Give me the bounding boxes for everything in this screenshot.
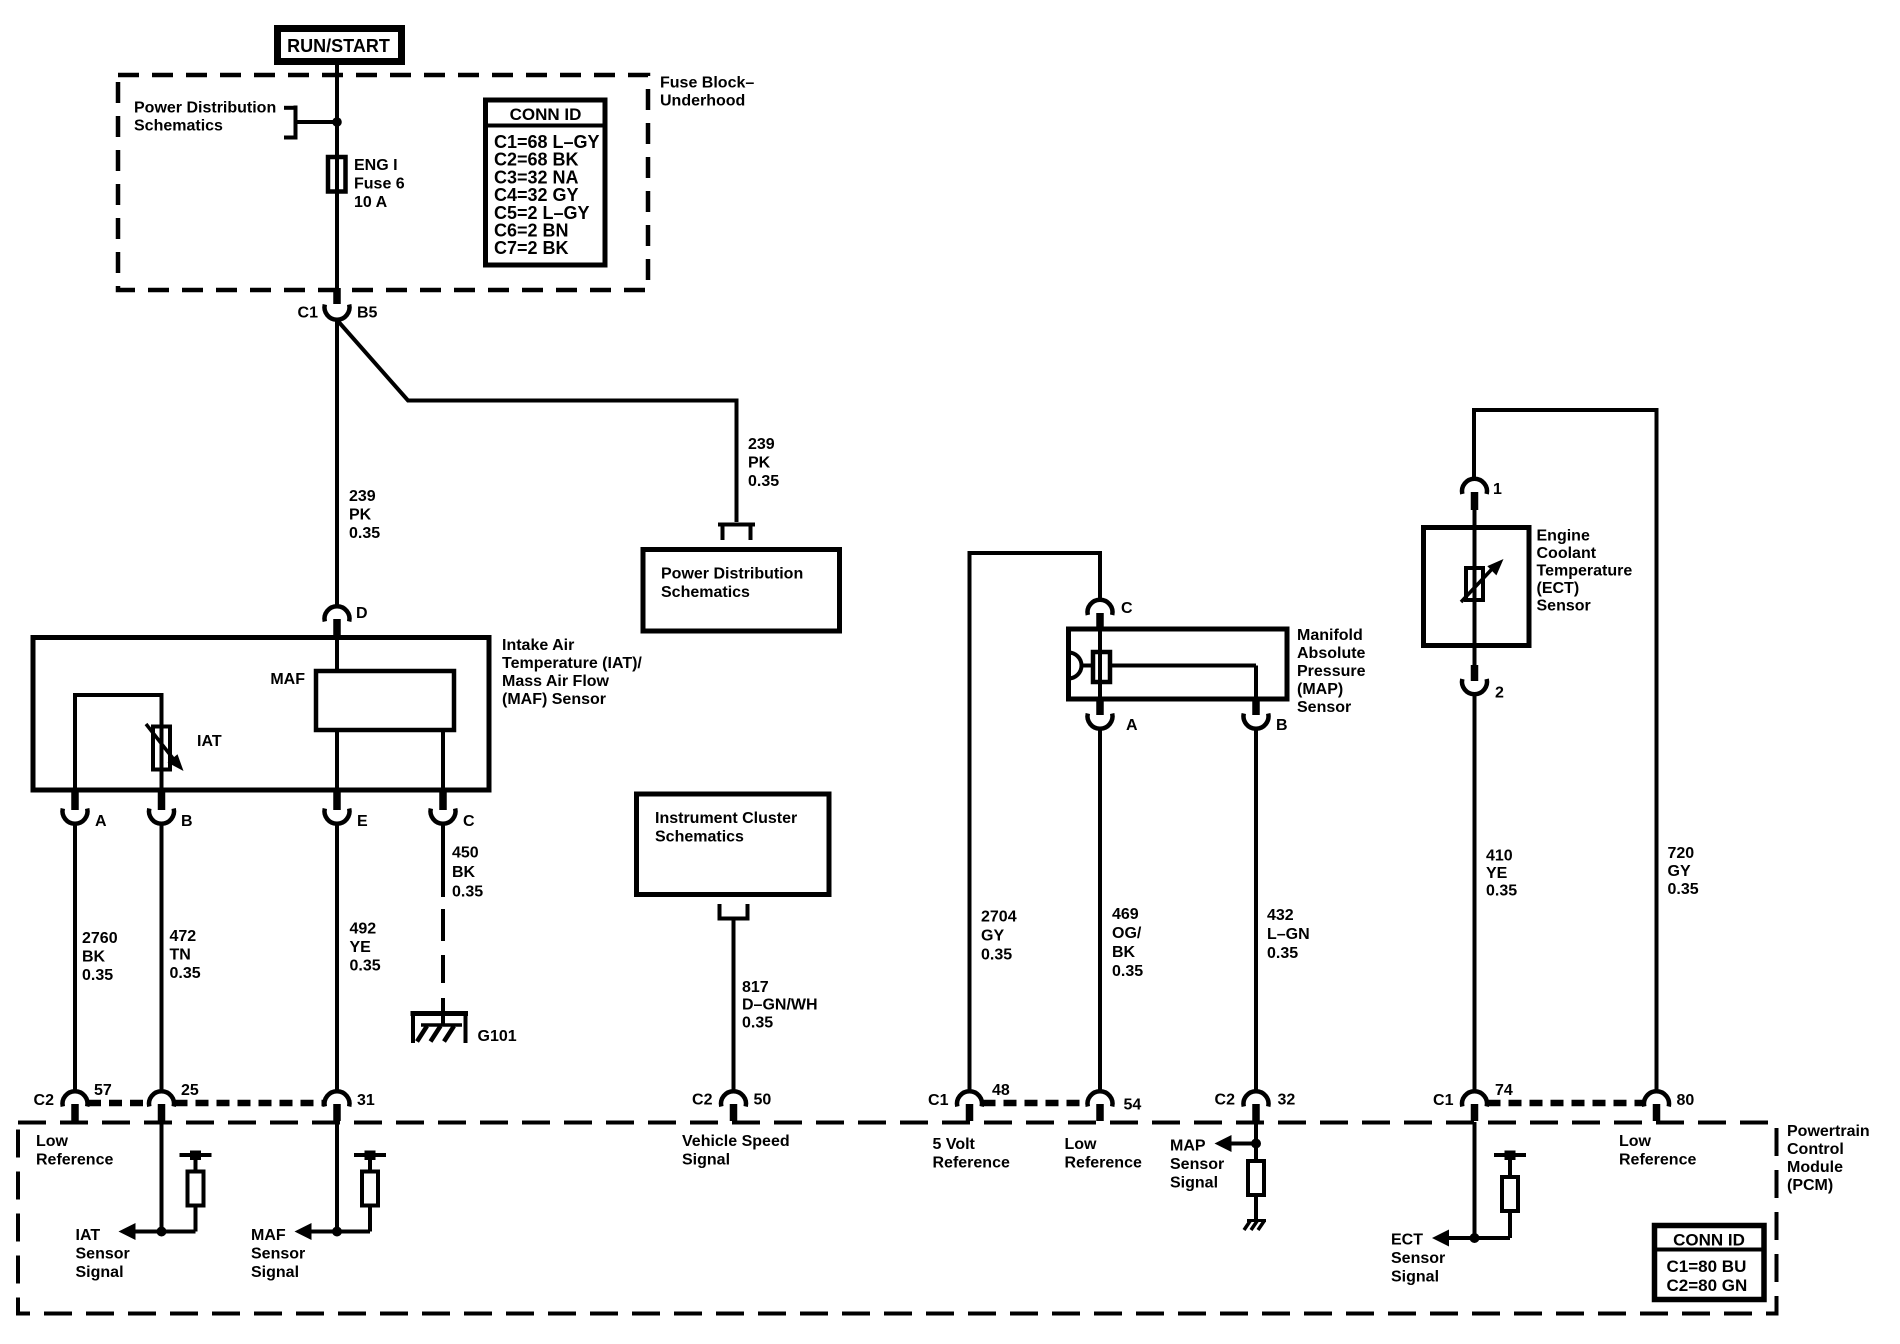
svg-text:Sensor: Sensor (1297, 699, 1351, 716)
connector group dashes 48-54 (983, 1100, 1088, 1107)
svg-text:450: 450 (452, 845, 479, 862)
svg-text:C: C (1121, 600, 1133, 617)
svg-text:0.35: 0.35 (1112, 963, 1143, 980)
wire: 5 volt reference feed (968, 551, 1103, 1092)
svg-text:Sensor: Sensor (76, 1246, 130, 1263)
svg-text:Absolute: Absolute (1297, 645, 1366, 662)
svg-text:MAF: MAF (251, 1227, 286, 1244)
svg-text:74: 74 (1495, 1082, 1513, 1099)
svg-text:Pressure: Pressure (1297, 663, 1366, 680)
svg-text:BK: BK (1112, 944, 1136, 961)
svg-text:Control: Control (1787, 1141, 1844, 1158)
svg-text:0.35: 0.35 (349, 525, 380, 542)
wire 239 PK down to D (335, 319, 339, 608)
svg-text:Sensor: Sensor (1537, 598, 1591, 615)
svg-text:Manifold: Manifold (1297, 627, 1363, 644)
wire 410 YE (1473, 695, 1477, 1093)
label 410 YE 0.35 (1486, 848, 1517, 900)
connector C1 / B5 (298, 288, 378, 322)
PCM pin C2 57 (34, 1082, 112, 1121)
svg-text:469: 469 (1112, 906, 1139, 923)
svg-text:Schematics: Schematics (134, 118, 223, 135)
svg-text:Module: Module (1787, 1159, 1843, 1176)
svg-text:0.35: 0.35 (350, 958, 381, 975)
ECT pin 2 (1462, 645, 1504, 702)
svg-text:Low: Low (36, 1133, 69, 1150)
label: Low Reference (pin 80) (1619, 1133, 1696, 1169)
svg-text:B5: B5 (357, 305, 378, 322)
svg-text:Reference: Reference (36, 1152, 113, 1169)
svg-text:B: B (1276, 717, 1288, 734)
fuse block underhood dashed box (118, 75, 648, 290)
PCM pin C1 48 (928, 1082, 1010, 1121)
svg-text:Sensor: Sensor (1391, 1250, 1445, 1267)
label 432 L-GN 0.35 (1267, 907, 1310, 962)
label: Engine Coolant Temperature (ECT) Sensor (1537, 528, 1633, 615)
svg-text:Signal: Signal (1391, 1269, 1439, 1286)
box: Instrument Cluster Schematics (637, 794, 830, 895)
svg-text:10 A: 10 A (354, 194, 388, 211)
svg-text:472: 472 (170, 928, 197, 945)
svg-text:0.35: 0.35 (82, 967, 113, 984)
svg-text:720: 720 (1668, 845, 1695, 862)
svg-text:ENG I: ENG I (354, 157, 398, 174)
wire 432 L-GN (1254, 729, 1258, 1092)
ECT pin 1 (1462, 479, 1502, 528)
svg-text:A: A (95, 813, 107, 830)
svg-text:57: 57 (94, 1082, 112, 1099)
svg-text:C2: C2 (34, 1092, 55, 1109)
MAF element box (270, 671, 454, 730)
svg-text:GY: GY (1668, 863, 1691, 880)
IAT thermistor (146, 724, 222, 771)
svg-text:25: 25 (181, 1082, 199, 1099)
svg-text:E: E (357, 813, 368, 830)
MAF wires to pins E and C (335, 730, 339, 790)
svg-text:Reference: Reference (1065, 1155, 1142, 1172)
label: Intake Air Temperature (IAT)/Mass Air Flow (MAF) Sensor (502, 637, 642, 708)
label: 5 Volt Reference (933, 1136, 1010, 1172)
svg-text:Vehicle Speed: Vehicle Speed (682, 1133, 790, 1150)
label: Low Reference (pin 54) (1065, 1136, 1142, 1172)
svg-text:2704: 2704 (981, 909, 1017, 926)
svg-text:817: 817 (742, 979, 769, 996)
svg-text:80: 80 (1677, 1092, 1695, 1109)
power source RUN/START (278, 29, 402, 62)
svg-text:50: 50 (754, 1092, 772, 1109)
ECT sensor signal circuit (1432, 1122, 1526, 1247)
svg-text:IAT: IAT (76, 1227, 101, 1244)
svg-text:Reference: Reference (933, 1155, 1010, 1172)
svg-text:Low: Low (1619, 1133, 1652, 1150)
svg-text:0.35: 0.35 (170, 965, 201, 982)
svg-text:Powertrain: Powertrain (1787, 1123, 1870, 1140)
svg-text:IAT: IAT (197, 733, 222, 750)
svg-text:2: 2 (1495, 685, 1504, 702)
svg-text:PK: PK (349, 507, 372, 524)
connector group dashes 74-80 (1488, 1100, 1644, 1107)
CONN ID table (PCM) (1655, 1226, 1765, 1300)
svg-text:0.35: 0.35 (981, 947, 1012, 964)
svg-text:(MAF) Sensor: (MAF) Sensor (502, 691, 606, 708)
ECT feed wire (1472, 410, 1659, 1092)
svg-text:0.35: 0.35 (1267, 945, 1298, 962)
svg-text:31: 31 (357, 1092, 375, 1109)
label 492 YE 0.35 (350, 921, 381, 975)
PCM pin C2 32 (1215, 1091, 1296, 1121)
svg-text:(MAP): (MAP) (1297, 681, 1343, 698)
IAT/MAF sensor box (33, 638, 489, 791)
label 469 OG/BK 0.35 (1112, 906, 1143, 980)
svg-text:Signal: Signal (1170, 1175, 1218, 1192)
svg-text:G101: G101 (478, 1028, 517, 1045)
svg-text:239: 239 (349, 488, 376, 505)
MAP pin C (1088, 600, 1134, 630)
PCM pin C1 74 (1433, 1082, 1513, 1121)
svg-text:PK: PK (748, 455, 771, 472)
svg-text:0.35: 0.35 (742, 1014, 773, 1031)
label 239 PK 0.35 (right) (748, 436, 779, 490)
svg-text:Coolant: Coolant (1537, 545, 1597, 562)
PCM pin 80 (1644, 1091, 1694, 1121)
wire 817 D-GN/WH (732, 919, 736, 1093)
svg-text:C2: C2 (692, 1092, 713, 1109)
CONN ID table (fuse block) (486, 100, 606, 265)
PCM pin 31 (325, 1091, 375, 1121)
label: Fuse Block-Underhood (660, 75, 754, 110)
PCM pin C2 50 (692, 1091, 771, 1121)
label: Low Reference (pin 57) (36, 1133, 113, 1169)
MAF sensor signal circuit (295, 1122, 387, 1240)
svg-text:C1: C1 (1433, 1092, 1454, 1109)
ECT thermistor (1461, 528, 1504, 645)
svg-text:L–GN: L–GN (1267, 926, 1310, 943)
svg-text:C1: C1 (298, 305, 319, 322)
label 472 TN 0.35 (170, 928, 201, 982)
wire 450 BK dashed to ground (441, 824, 445, 1025)
svg-text:D–GN/WH: D–GN/WH (742, 997, 818, 1014)
svg-text:48: 48 (992, 1082, 1010, 1099)
svg-text:A: A (1126, 717, 1138, 734)
pin E (325, 791, 369, 830)
connector group dashes 57-25-31 (88, 1100, 324, 1107)
PCM pin 25 (149, 1082, 199, 1121)
svg-text:C1=80 BU: C1=80 BU (1667, 1257, 1747, 1276)
pin B (149, 791, 193, 830)
svg-text:Temperature (IAT)/: Temperature (IAT)/ (502, 655, 642, 672)
label: Vehicle Speed Signal (682, 1133, 790, 1169)
svg-text:C7=2 BK: C7=2 BK (494, 238, 569, 258)
svg-text:Sensor: Sensor (251, 1246, 305, 1263)
label 2704 GY 0.35 (981, 909, 1017, 964)
ground G101 (411, 1014, 517, 1046)
svg-text:MAP: MAP (1170, 1138, 1206, 1155)
svg-text:GY: GY (981, 928, 1004, 945)
svg-text:Sensor: Sensor (1170, 1156, 1224, 1173)
MAP pin B (1244, 700, 1288, 734)
svg-text:410: 410 (1486, 848, 1513, 865)
svg-text:Intake Air: Intake Air (502, 637, 574, 654)
pin A (62, 791, 107, 830)
wire 469 OG/BK (1098, 729, 1102, 1092)
wire 2760 BK (73, 824, 77, 1092)
wire 472 TN (160, 824, 164, 1092)
svg-text:RUN/START: RUN/START (287, 36, 390, 56)
svg-text:C1: C1 (928, 1092, 949, 1109)
svg-text:Mass Air Flow: Mass Air Flow (502, 673, 610, 690)
svg-text:OG/: OG/ (1112, 925, 1142, 942)
svg-text:Fuse 6: Fuse 6 (354, 176, 405, 193)
svg-text:0.35: 0.35 (748, 473, 779, 490)
svg-text:Power Distribution: Power Distribution (134, 100, 276, 117)
MAP sensor box (1069, 629, 1288, 699)
MAP pin A (1088, 700, 1139, 734)
svg-text:1: 1 (1493, 481, 1502, 498)
svg-text:Engine: Engine (1537, 528, 1590, 545)
ECT sensor box (1424, 528, 1530, 646)
label 720 GY 0.35 (1668, 845, 1699, 898)
svg-text:C: C (463, 813, 475, 830)
svg-text:492: 492 (350, 921, 377, 938)
svg-text:Signal: Signal (76, 1264, 124, 1281)
label: IAT Sensor Signal (76, 1227, 130, 1281)
svg-text:5 Volt: 5 Volt (933, 1136, 976, 1153)
svg-text:Low: Low (1065, 1136, 1098, 1153)
wire: RUN/START to fuse (335, 65, 339, 158)
svg-text:Signal: Signal (682, 1152, 730, 1169)
wire 239 PK right branch to Power Distribution Schematics (337, 320, 737, 522)
svg-text:32: 32 (1278, 1092, 1296, 1109)
svg-text:432: 432 (1267, 907, 1294, 924)
svg-text:(ECT): (ECT) (1537, 580, 1580, 597)
svg-text:Schematics: Schematics (661, 584, 750, 601)
svg-text:C2: C2 (1215, 1092, 1236, 1109)
svg-text:BK: BK (452, 864, 476, 881)
connector D (325, 605, 368, 636)
pin C (431, 791, 476, 830)
svg-text:0.35: 0.35 (452, 884, 483, 901)
junction dot (332, 117, 342, 127)
box: Power Distribution Schematics (643, 550, 840, 632)
svg-text:Underhood: Underhood (660, 93, 745, 110)
IAT thermistor internal wiring (73, 693, 162, 790)
svg-text:TN: TN (170, 947, 191, 964)
svg-text:C2=80 GN: C2=80 GN (1667, 1276, 1748, 1295)
MAP sensor internals (1069, 629, 1257, 699)
off-page bracket above Power Distribution Schematics box (718, 525, 755, 541)
svg-text:CONN ID: CONN ID (510, 105, 582, 124)
svg-text:Power Distribution: Power Distribution (661, 566, 803, 583)
IAT sensor signal circuit (119, 1122, 212, 1240)
svg-text:0.35: 0.35 (1668, 881, 1699, 898)
svg-text:239: 239 (748, 436, 775, 453)
label: ECT Sensor Signal (1391, 1232, 1445, 1286)
svg-text:Schematics: Schematics (655, 829, 744, 846)
label 239 PK 0.35 (349, 488, 380, 542)
svg-text:54: 54 (1124, 1097, 1142, 1114)
svg-text:Fuse Block–: Fuse Block– (660, 75, 754, 92)
wire: fuse to connector C1 B5 (335, 190, 339, 289)
svg-text:CONN ID: CONN ID (1673, 1231, 1745, 1250)
off-page tap bracket: Power Distribution Schematics (284, 106, 337, 140)
fuse ENG I Fuse 6 10 A (328, 157, 405, 211)
svg-text:Temperature: Temperature (1537, 563, 1633, 580)
label: Power Distribution Schematics (134, 100, 276, 135)
svg-text:YE: YE (350, 939, 372, 956)
svg-text:(PCM): (PCM) (1787, 1177, 1833, 1194)
label 450 BK 0.35 (452, 845, 483, 901)
label: MAF Sensor Signal (251, 1227, 305, 1281)
MAP sensor signal circuit (1215, 1122, 1267, 1230)
wire 492 YE (335, 824, 339, 1092)
label: MAP Sensor Signal (1170, 1138, 1224, 1192)
PCM dashed box (18, 1123, 1777, 1314)
svg-text:2760: 2760 (82, 930, 118, 947)
svg-text:Signal: Signal (251, 1264, 299, 1281)
svg-text:D: D (356, 605, 368, 622)
svg-text:Instrument Cluster: Instrument Cluster (655, 810, 797, 827)
label: Powertrain Control Module (PCM) (1787, 1123, 1870, 1194)
label: Manifold Absolute Pressure (MAP) Sensor (1297, 627, 1366, 716)
label 817 D-GN/WH 0.35 (742, 979, 818, 1031)
svg-text:ECT: ECT (1391, 1232, 1423, 1249)
svg-text:B: B (181, 813, 193, 830)
PCM pin 54 (1088, 1091, 1142, 1121)
label 2760 BK 0.35 (82, 930, 118, 984)
svg-text:MAF: MAF (270, 671, 305, 688)
off-page bracket below Instrument Cluster box (718, 904, 750, 919)
svg-text:0.35: 0.35 (1486, 883, 1517, 900)
svg-text:BK: BK (82, 949, 106, 966)
wire D into MAF (335, 637, 339, 672)
svg-text:YE: YE (1486, 865, 1508, 882)
svg-text:Reference: Reference (1619, 1152, 1696, 1169)
